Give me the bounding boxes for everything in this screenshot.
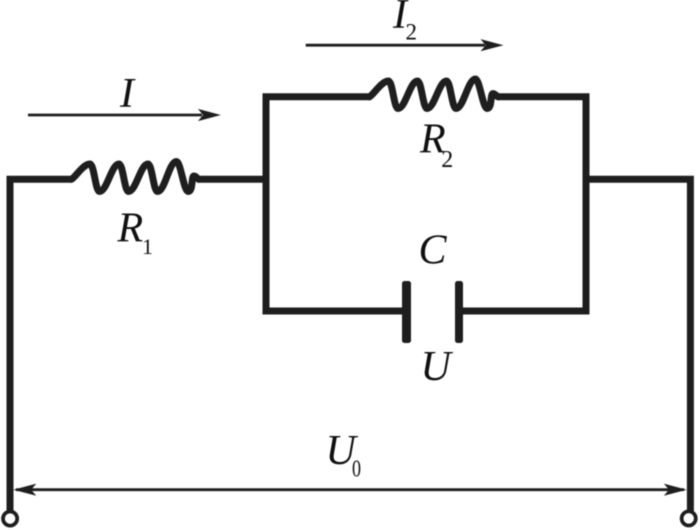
svg-text:I: I bbox=[119, 71, 136, 117]
svg-text:2: 2 bbox=[441, 147, 453, 173]
svg-text:U: U bbox=[421, 344, 454, 390]
svg-text:0: 0 bbox=[352, 455, 361, 482]
svg-text:C: C bbox=[419, 228, 448, 274]
svg-text:1: 1 bbox=[142, 234, 153, 259]
svg-text:R: R bbox=[117, 206, 144, 252]
svg-text:2: 2 bbox=[406, 20, 418, 45]
